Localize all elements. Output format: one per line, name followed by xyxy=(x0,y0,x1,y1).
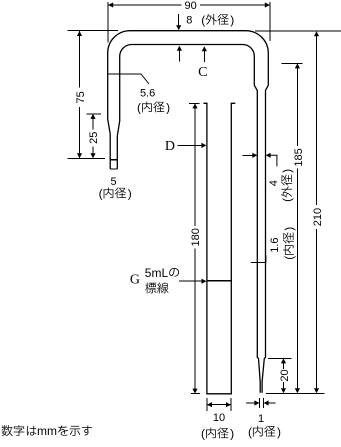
svg-text:(: ( xyxy=(248,425,252,439)
svg-text:): ) xyxy=(277,425,281,439)
svg-text:m: m xyxy=(151,266,161,280)
svg-text:1: 1 xyxy=(258,413,264,425)
dimension 10 (inner diameter of wide tube) xyxy=(201,398,234,441)
dimension 90 (top width): extension lines, dimension line, arrowheads, text xyxy=(108,0,270,43)
svg-text:): ) xyxy=(230,13,234,27)
extension line below 75/25 dimensions xyxy=(68,157,105,159)
svg-text:8: 8 xyxy=(186,14,192,26)
svg-text:10: 10 xyxy=(213,412,225,424)
svg-text:185: 185 xyxy=(293,148,305,166)
svg-text:(: ( xyxy=(280,198,294,202)
svg-text:): ) xyxy=(230,427,234,441)
svg-text:): ) xyxy=(280,169,294,173)
bottom extension line for 20/185/210 xyxy=(266,392,324,394)
dimension 185 (right) xyxy=(282,63,305,393)
label 1.6 (inner diameter) with leader crossing narrow tube xyxy=(251,227,296,263)
svg-text:(: ( xyxy=(282,256,296,260)
label C with up arrow to tube inner top xyxy=(198,46,207,80)
svg-text:C: C xyxy=(198,65,207,80)
dimension 1 (inner diameter of tip) xyxy=(246,398,281,439)
label 5.6 (inner diameter) with leader crossing left arm xyxy=(108,74,170,115)
svg-text:(: ( xyxy=(201,13,205,27)
svg-text:1.6: 1.6 xyxy=(269,237,281,252)
svg-text:): ) xyxy=(128,187,132,201)
dimension 75 (left, vertical) xyxy=(75,31,87,158)
svg-text:(: ( xyxy=(201,427,205,441)
svg-text:): ) xyxy=(282,227,296,231)
svg-text:D: D xyxy=(165,139,175,154)
label G (5 mL gauge mark) with text and arrow xyxy=(130,266,207,294)
label 5 (inner diameter) under left arm xyxy=(99,176,132,201)
svg-text:): ) xyxy=(166,101,170,115)
svg-text:m: m xyxy=(37,424,47,438)
svg-text:(: ( xyxy=(99,187,103,201)
svg-text:5: 5 xyxy=(111,176,117,188)
dimension 210 (far right, total height) xyxy=(312,31,324,393)
label 8 (outer diameter) with down and up arrows across tube top wall xyxy=(176,13,234,62)
left arm open end xyxy=(110,168,117,170)
svg-text:4: 4 xyxy=(268,180,280,186)
svg-text:(: ( xyxy=(137,101,141,115)
tube outer outline (left arm outer wall, top outer edge, right arm outer wall with neck and bottom taper) xyxy=(108,31,269,393)
dimension 4 (outer diameter of narrow tube) with rotated label xyxy=(243,153,295,202)
dimension 20 (tip taper length) xyxy=(268,358,292,393)
tube inner outline (left arm inner wall, top inner edge, right arm inner wall with neck and bottom taper) xyxy=(117,44,260,392)
svg-text:20: 20 xyxy=(279,369,291,381)
top-right reference line to 210 dimension xyxy=(255,30,341,32)
svg-text:25: 25 xyxy=(88,132,100,144)
label D with arrow to wide tube wall xyxy=(165,139,207,154)
svg-text:L: L xyxy=(161,266,168,280)
svg-text:G: G xyxy=(130,273,140,288)
svg-text:5.6: 5.6 xyxy=(140,87,155,99)
svg-text:180: 180 xyxy=(190,228,202,246)
svg-text:m: m xyxy=(47,424,57,438)
5 mL gauge line G across wide tube xyxy=(207,280,232,282)
left arm cross mark xyxy=(110,159,117,161)
wide center tube (walls, top lips, closed bottom) xyxy=(204,103,236,394)
dimension 180 (wide tube height) xyxy=(189,103,202,393)
dimension 25 (left taper section) xyxy=(86,114,101,158)
svg-text:75: 75 xyxy=(75,91,87,103)
svg-text:210: 210 xyxy=(312,208,324,226)
svg-text:90: 90 xyxy=(184,0,196,12)
top-left reference line at tube top level xyxy=(68,30,119,32)
note: numbers are in mm xyxy=(2,425,13,436)
